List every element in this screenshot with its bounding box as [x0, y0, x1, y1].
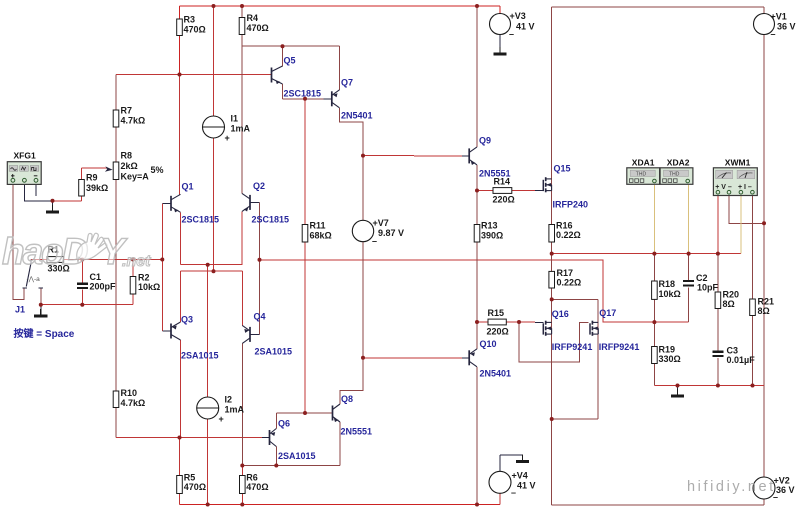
- wire R18 top: [653, 254, 655, 281]
- svg-text:220Ω: 220Ω: [493, 195, 515, 205]
- transistor Q6 2SA1015: [270, 429, 277, 447]
- wire ground stub 2: [40, 305, 42, 309]
- instrument XWM1 wattmeter: [713, 168, 757, 196]
- svg-text:Q2: Q2: [253, 181, 265, 191]
- node R6-node: [240, 464, 244, 468]
- svg-text:J1: J1: [15, 305, 25, 315]
- capacitor C3: [712, 352, 723, 356]
- wire Q7 emitter up: [339, 46, 341, 90]
- wire V1 top stub: [763, 7, 765, 14]
- svg-text:470Ω: 470Ω: [246, 482, 268, 492]
- wire Q5 collector up: [282, 46, 284, 66]
- wire XFG1 minus stub: [35, 184, 37, 196]
- svg-text:Q5: Q5: [284, 56, 296, 66]
- svg-text:XDA2: XDA2: [667, 158, 690, 168]
- wire R13 column: [476, 191, 478, 323]
- svg-text:XDA1: XDA1: [632, 158, 655, 168]
- node rail-I1: [212, 4, 216, 8]
- wire Q9 base line: [363, 155, 462, 157]
- svg-text:IRFP9241: IRFP9241: [552, 342, 593, 352]
- voltage source V1: [754, 14, 775, 35]
- svg-text:200pF: 200pF: [90, 282, 117, 292]
- resistor R2 body: [130, 277, 136, 295]
- svg-text:Key=A: Key=A: [121, 172, 150, 182]
- resistor R21 body: [750, 299, 756, 316]
- node gnd-line: [676, 384, 680, 388]
- svg-text:10pF: 10pF: [697, 283, 719, 293]
- ground near J1: [34, 309, 47, 316]
- svg-text:2SA1015: 2SA1015: [255, 347, 293, 357]
- svg-text:R8: R8: [121, 151, 133, 161]
- node fb-node: [652, 320, 656, 324]
- wire R3 column: [179, 6, 181, 75]
- svg-text:390Ω: 390Ω: [481, 231, 503, 241]
- wire PNP emitters line: [181, 270, 243, 272]
- wire Q16 gate lead: [535, 321, 543, 323]
- node I2-rail: [206, 503, 210, 507]
- wire C2 bottom: [688, 288, 690, 322]
- resistor R17 body: [549, 271, 555, 288]
- svg-text:–: –: [509, 29, 514, 39]
- wire XDA2 yellow: [688, 185, 690, 254]
- node rail-R4: [240, 4, 244, 8]
- svg-text:R21: R21: [758, 297, 775, 307]
- wire V2 bottom stub: [763, 499, 765, 505]
- wire Q17 column: [597, 299, 599, 419]
- svg-text:XFG1: XFG1: [14, 151, 36, 161]
- wire V4 to ground: [500, 454, 523, 456]
- svg-text:10kΩ: 10kΩ: [138, 282, 160, 292]
- wire lower mirror line: [242, 465, 339, 467]
- node V+-out: [716, 252, 720, 256]
- svg-text:R10: R10: [121, 388, 138, 398]
- wire Q10 collector down: [476, 367, 478, 505]
- transistor Q8 2N5551: [333, 404, 341, 422]
- wire Q9 emitter down: [476, 165, 478, 191]
- wire input ground line: [41, 304, 133, 306]
- wire V4 plus up: [499, 455, 501, 472]
- node R5-node: [178, 436, 182, 440]
- wire Q9 base lead: [462, 155, 469, 157]
- node R18-out: [652, 252, 656, 256]
- svg-text:Q17: Q17: [599, 308, 616, 318]
- wire Q17 gate route: [519, 322, 589, 362]
- wire Q3 emitter up: [180, 271, 182, 322]
- wire R3 junction to Q1 collector: [179, 75, 181, 195]
- wire Q5 emitter to Q7 base: [283, 98, 324, 100]
- svg-text:–: –: [771, 29, 776, 39]
- wire ground stub: [52, 201, 54, 205]
- wire Q9 collector column: [476, 6, 478, 147]
- wire Q4 emitter up: [241, 271, 243, 325]
- svg-text:C3: C3: [727, 346, 739, 356]
- svg-text:R6: R6: [246, 473, 258, 483]
- svg-text:2SC1815: 2SC1815: [284, 89, 322, 99]
- ground near XFG1: [46, 205, 59, 212]
- svg-text:IRFP9241: IRFP9241: [599, 342, 640, 352]
- node drain-node: [550, 417, 554, 421]
- wire Q1 base lead: [162, 202, 171, 204]
- node R3-bias: [178, 73, 182, 77]
- resistor R18 body: [652, 281, 658, 299]
- node Q9-emitter: [475, 189, 479, 193]
- capacitor C2: [683, 281, 694, 285]
- svg-text:Q15: Q15: [554, 164, 571, 174]
- svg-text:470Ω: 470Ω: [247, 23, 269, 33]
- ground V3: [493, 47, 506, 54]
- resistor R7 body: [113, 110, 119, 127]
- potentiometer R8 body: [113, 162, 119, 180]
- svg-text:C2: C2: [696, 273, 708, 283]
- wire Q6 base line: [116, 437, 262, 439]
- resistor R11 body: [302, 225, 308, 243]
- svg-text:36 V: 36 V: [776, 485, 795, 495]
- node V7-bot: [361, 356, 365, 360]
- svg-text:41 V: 41 V: [516, 22, 535, 32]
- svg-text:R17: R17: [557, 268, 574, 278]
- svg-text:9.87 V: 9.87 V: [378, 228, 404, 238]
- svg-text:4.7kΩ: 4.7kΩ: [121, 116, 146, 126]
- svg-text:Q4: Q4: [254, 312, 266, 322]
- svg-text:39kΩ: 39kΩ: [86, 183, 108, 193]
- wire R4 to Q2 collector: [241, 46, 243, 193]
- wire C1 bottom: [81, 290, 83, 305]
- resistor R13 body: [474, 225, 480, 243]
- node R15-node: [475, 320, 479, 324]
- svg-text:2SA1015: 2SA1015: [278, 451, 316, 461]
- node C1-gnd: [80, 303, 84, 307]
- svg-text:+V3: +V3: [510, 11, 526, 21]
- resistor R3 body: [177, 19, 183, 36]
- wire R18 bottom: [653, 299, 655, 322]
- svg-text:R11: R11: [310, 221, 326, 231]
- svg-text:+V1: +V1: [771, 12, 787, 22]
- svg-text:THD: THD: [636, 171, 647, 177]
- wire XWM1 I+ yellow: [740, 196, 742, 254]
- svg-text:+V4: +V4: [512, 471, 528, 481]
- wire R5 column: [179, 438, 181, 505]
- svg-text:2SC1815: 2SC1815: [252, 215, 290, 225]
- svg-text:2SC1815: 2SC1815: [182, 215, 220, 225]
- svg-text:R4: R4: [247, 13, 259, 23]
- wire NPN emitters line: [181, 264, 243, 266]
- instrument XDA1 distortion analyzer: [627, 168, 660, 185]
- svg-text:R9: R9: [86, 173, 98, 183]
- voltage source V3: [490, 14, 511, 35]
- wire Q4 collector down: [241, 343, 243, 465]
- wire XWM1 I- down: [752, 196, 754, 300]
- svg-text:+: +: [219, 414, 224, 424]
- node pnp-tail: [212, 269, 216, 273]
- node XFG-gnd: [51, 199, 55, 203]
- wire -36V bottom line: [552, 504, 764, 506]
- watermark haoDIY left: [2, 231, 151, 272]
- node R16-out: [550, 252, 554, 256]
- instrument XDA2 distortion analyzer: [660, 168, 693, 185]
- svg-text:+ V –: + V –: [715, 184, 732, 191]
- svg-text:Q8: Q8: [341, 394, 353, 404]
- wire V3 to ground: [499, 35, 501, 49]
- resistor R14 body: [493, 188, 512, 194]
- svg-text:hifidiy.net: hifidiy.net: [687, 479, 776, 495]
- capacitor C1: [77, 284, 88, 288]
- transistor Q15 IRFP240: [543, 177, 551, 192]
- node Q5-coll: [281, 44, 285, 48]
- svg-text:R20: R20: [723, 290, 740, 300]
- transistor Q17 IRFP9241: [590, 321, 598, 336]
- node R17-bot: [550, 297, 554, 301]
- svg-text:470Ω: 470Ω: [184, 482, 206, 492]
- wire ground stub right: [677, 386, 679, 390]
- voltage source V2: [753, 477, 775, 499]
- node fb-base: [258, 258, 262, 262]
- wire R14 line: [477, 190, 535, 192]
- svg-text:2kΩ: 2kΩ: [121, 161, 138, 171]
- resistor R20 body: [715, 292, 721, 309]
- wire C3 bottom: [717, 358, 719, 385]
- transistor Q1 2SC1815: [171, 194, 181, 212]
- wire Q15 gate lead: [535, 190, 543, 192]
- wire Q10 base lead: [462, 357, 469, 359]
- node gate-node: [517, 320, 521, 324]
- wire Q3 base lead: [162, 330, 171, 332]
- transistor Q7 2N5401: [332, 90, 340, 108]
- resistor R19 body: [652, 347, 658, 364]
- wire feedback line: [260, 260, 689, 322]
- wire output node line: [552, 253, 741, 255]
- wire R21 bottom: [752, 316, 754, 386]
- current source I1: [203, 116, 225, 138]
- svg-text:+V2: +V2: [774, 476, 790, 486]
- svg-text:36 V: 36 V: [777, 22, 796, 32]
- wire ground node to R9: [53, 200, 82, 202]
- wire R6 column: [241, 466, 243, 505]
- wire I2 top column: [207, 265, 209, 397]
- node R21-gnd: [751, 384, 755, 388]
- wire XFG1 common to ground: [24, 184, 52, 200]
- wire V1 minus column: [763, 35, 765, 386]
- wire C2 top: [688, 254, 690, 281]
- svg-text:Q3: Q3: [181, 315, 193, 325]
- resistor R10 body: [113, 391, 119, 408]
- wire bias line to Q5 base: [116, 74, 272, 76]
- wire Q3 collector down: [180, 340, 182, 438]
- node rail-Q9: [475, 4, 479, 8]
- wire V7 top column: [362, 156, 364, 221]
- svg-text:+ I –: + I –: [738, 184, 752, 191]
- svg-text:–: –: [372, 236, 377, 246]
- ground V4: [516, 455, 529, 462]
- svg-text:.net: .net: [122, 253, 151, 270]
- svg-text:0.22Ω: 0.22Ω: [557, 278, 582, 288]
- resistor R6 body: [240, 476, 246, 494]
- svg-text:8Ω: 8Ω: [723, 299, 735, 309]
- wire XWM1 V- to rail: [729, 196, 764, 224]
- wire Q1 emitter down: [180, 212, 182, 264]
- wire Q8 emitter down: [339, 422, 341, 466]
- resistor R9 body: [79, 180, 85, 197]
- resistor R16 body: [549, 225, 555, 243]
- node Q8-base: [303, 411, 307, 415]
- svg-text:+: +: [225, 133, 230, 143]
- svg-text:按键 = Space: 按键 = Space: [14, 327, 75, 340]
- node Q6-coll: [274, 464, 278, 468]
- wire Q7 base lead: [324, 98, 332, 100]
- wire Q6 base lead: [262, 437, 270, 439]
- wire R7 pot column upper: [115, 75, 117, 163]
- wire to -36V rail: [551, 419, 553, 505]
- resistor R1 body: [47, 257, 64, 263]
- wire pot to R10 column: [115, 180, 117, 438]
- wire Q2 emitter down: [241, 211, 243, 264]
- node R11-top: [303, 97, 307, 101]
- svg-text:5%: 5%: [151, 165, 164, 175]
- wire input node line: [31, 259, 162, 261]
- wire Q5 emitter down: [282, 84, 284, 99]
- svg-text:470Ω: 470Ω: [184, 25, 206, 35]
- wire R9 column: [81, 168, 83, 201]
- wire V4 ground stub: [522, 455, 524, 456]
- wire R9 to pot wiper: [82, 167, 108, 169]
- current source I2: [197, 397, 219, 419]
- svg-text:+V7: +V7: [373, 218, 389, 228]
- svg-text:R19: R19: [659, 345, 676, 355]
- svg-text:R18: R18: [659, 279, 676, 289]
- svg-text:2N5401: 2N5401: [480, 369, 512, 379]
- svg-text:I1: I1: [231, 114, 239, 124]
- svg-text:R13: R13: [481, 221, 498, 231]
- wire R11 column: [304, 99, 306, 413]
- wire +36V rail: [552, 6, 764, 8]
- wire J1 contact to ground node: [40, 288, 42, 304]
- node V7-top: [361, 154, 365, 158]
- svg-text:IRFP240: IRFP240: [553, 200, 589, 210]
- svg-text:R7: R7: [121, 106, 133, 116]
- svg-text:Q10: Q10: [480, 339, 497, 349]
- svg-text:220Ω: 220Ω: [487, 327, 509, 337]
- svg-text:10kΩ: 10kΩ: [659, 289, 681, 299]
- wire R2 column: [132, 260, 134, 305]
- wire Q16 column: [551, 299, 553, 419]
- wire Q2 Q4 base vertical: [259, 202, 261, 334]
- svg-text:R16: R16: [556, 221, 573, 231]
- wire Q7 collector route: [340, 108, 364, 156]
- transistor Q9 2N5551: [469, 147, 477, 165]
- wire I1 bottom column: [213, 138, 215, 271]
- svg-text:0.01µF: 0.01µF: [727, 355, 756, 365]
- wire Q8 collector route: [340, 358, 363, 404]
- svg-text:1mA: 1mA: [225, 405, 245, 415]
- svg-text:R5: R5: [184, 473, 196, 483]
- svg-text:2SA1015: 2SA1015: [181, 351, 219, 361]
- wire V4 minus down: [499, 493, 501, 504]
- node R2-in: [131, 258, 135, 262]
- wire R4 column top: [241, 6, 243, 46]
- svg-text:1mA: 1mA: [231, 124, 251, 134]
- wire XDA1 yellow: [653, 185, 655, 254]
- svg-text:8Ω: 8Ω: [758, 306, 770, 316]
- transistor Q2 2SC1815: [242, 193, 250, 211]
- ground output: [671, 389, 684, 396]
- transistor Q3 2SA1015: [171, 322, 181, 340]
- transistor Q5 2SC1815: [272, 66, 283, 84]
- wire Q6 collector down: [275, 447, 277, 466]
- switch J1: [23, 260, 44, 289]
- wire XWM1 V+ down: [717, 196, 719, 254]
- wire Q10 emitter up: [476, 322, 478, 349]
- wire XFG1 plus to switch: [13, 184, 24, 299]
- wire drains join line: [552, 418, 598, 420]
- node V- rail: [762, 221, 766, 225]
- wire R15 line: [477, 321, 535, 323]
- wire R20 top: [717, 254, 719, 292]
- wire I1 top column: [213, 6, 215, 116]
- wire R20 to C3: [717, 309, 719, 352]
- svg-text:I2: I2: [225, 395, 233, 405]
- resistor R4 body: [239, 18, 245, 35]
- svg-text:Q6: Q6: [278, 419, 290, 429]
- svg-text:Q9: Q9: [479, 136, 491, 146]
- resistor R5 body: [177, 476, 183, 494]
- node C3-gnd: [716, 384, 720, 388]
- voltage source V4: [489, 471, 511, 493]
- svg-text:THD: THD: [669, 171, 680, 177]
- wire -41V bottom rail: [180, 504, 501, 506]
- svg-text:Q1: Q1: [182, 182, 194, 192]
- transistor Q10 2N5401: [469, 349, 477, 367]
- wire R17 bottom to Q17: [552, 298, 598, 300]
- svg-text:-⋀-a: -⋀-a: [27, 275, 41, 283]
- wire +41V top rail: [180, 5, 501, 7]
- node npn-tail: [206, 263, 210, 267]
- node Q10-rail: [475, 503, 479, 507]
- wire Q5 collector line: [242, 45, 340, 47]
- wire R17 column: [551, 254, 553, 300]
- svg-text:C1: C1: [90, 272, 102, 282]
- resistor R15 body: [488, 319, 506, 325]
- svg-text:2N5551: 2N5551: [479, 169, 511, 179]
- wire Q8 base line: [276, 412, 332, 414]
- wire ground return line: [654, 385, 764, 387]
- svg-text:41 V: 41 V: [517, 481, 536, 491]
- svg-text:0.22Ω: 0.22Ω: [556, 230, 581, 240]
- wire V2 top column: [763, 386, 765, 478]
- wire V3 top: [499, 6, 501, 14]
- node R6-rail: [240, 503, 244, 507]
- svg-text:Q16: Q16: [552, 309, 569, 319]
- svg-text:–: –: [511, 488, 516, 498]
- svg-text:haoD: haoD: [2, 231, 88, 272]
- svg-text:2N5401: 2N5401: [341, 111, 373, 121]
- wire Q10 base line: [363, 357, 462, 359]
- svg-text:R15: R15: [488, 308, 505, 318]
- wire Q4 base lead: [250, 333, 260, 335]
- wire R19 top: [653, 322, 655, 346]
- wire R19 bottom: [653, 364, 655, 386]
- svg-text:R2: R2: [138, 273, 150, 283]
- svg-text:2N5551: 2N5551: [341, 427, 373, 437]
- wire I2 bottom column: [207, 419, 209, 505]
- node C2-out: [687, 252, 691, 256]
- instrument XFG1 function generator: [7, 162, 41, 185]
- wire Q15 column rail to output: [551, 7, 553, 254]
- svg-text:4.7kΩ: 4.7kΩ: [121, 398, 146, 408]
- node C1-in: [80, 258, 84, 262]
- potentiometer R8 wiper arrow: [105, 166, 113, 171]
- svg-text:Q7: Q7: [341, 78, 353, 88]
- wire C1 top: [81, 260, 83, 284]
- wire Q2 base lead: [250, 201, 260, 203]
